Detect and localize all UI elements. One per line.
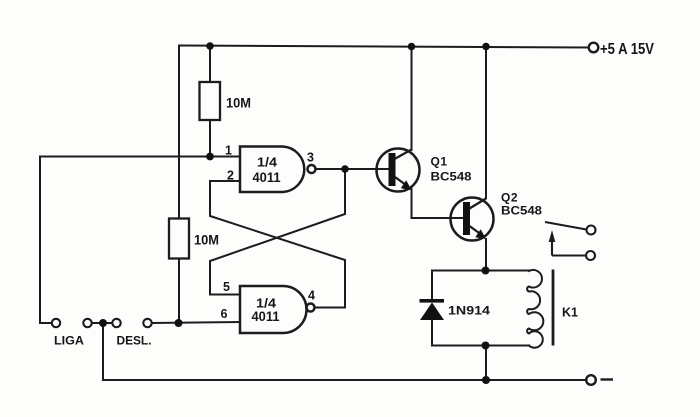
svg-text:4011: 4011 bbox=[252, 308, 280, 324]
svg-text:+5 A 15V: +5 A 15V bbox=[600, 41, 654, 58]
svg-text:4: 4 bbox=[308, 289, 315, 303]
svg-text:4011: 4011 bbox=[253, 169, 281, 185]
svg-text:1: 1 bbox=[225, 144, 232, 158]
svg-text:K1: K1 bbox=[562, 305, 578, 320]
svg-text:DESL.: DESL. bbox=[117, 334, 152, 348]
svg-text:1N914: 1N914 bbox=[448, 304, 490, 318]
svg-text:2: 2 bbox=[227, 169, 234, 183]
svg-text:BC548: BC548 bbox=[431, 170, 472, 184]
svg-text:5: 5 bbox=[223, 280, 230, 294]
svg-text:10M: 10M bbox=[226, 95, 251, 111]
svg-text:BC548: BC548 bbox=[501, 204, 542, 218]
svg-text:Q1: Q1 bbox=[431, 155, 448, 169]
svg-text:LIGA: LIGA bbox=[54, 334, 84, 348]
svg-text:Q2: Q2 bbox=[501, 191, 518, 205]
svg-text:3: 3 bbox=[307, 151, 314, 165]
svg-text:6: 6 bbox=[221, 307, 228, 321]
svg-text:1/4: 1/4 bbox=[257, 155, 278, 170]
svg-text:10M: 10M bbox=[194, 232, 219, 248]
